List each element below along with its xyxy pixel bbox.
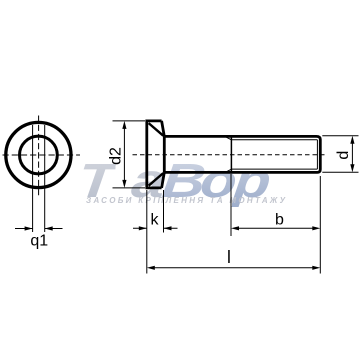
svg-text:b: b <box>275 212 284 229</box>
svg-text:k: k <box>151 212 160 229</box>
svg-text:d2: d2 <box>108 147 125 165</box>
svg-text:l: l <box>227 247 231 267</box>
svg-text:d: d <box>335 151 352 160</box>
svg-text:q1: q1 <box>30 233 48 250</box>
